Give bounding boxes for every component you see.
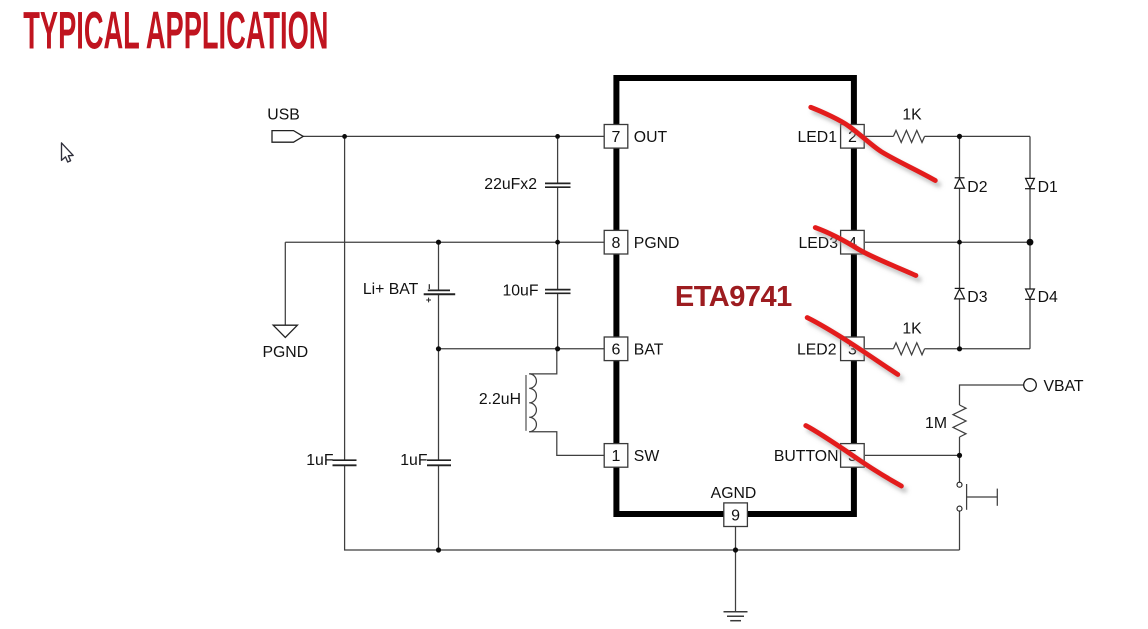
- svg-text:1uF: 1uF: [400, 452, 428, 469]
- svg-text:OUT: OUT: [634, 129, 668, 146]
- svg-text:LED1: LED1: [797, 129, 837, 146]
- svg-text:Li+ BAT: Li+ BAT: [363, 281, 419, 298]
- svg-text:1uF: 1uF: [306, 452, 334, 469]
- svg-text:9: 9: [731, 508, 740, 525]
- svg-text:8: 8: [612, 235, 621, 252]
- svg-text:7: 7: [612, 129, 621, 146]
- svg-text:BAT: BAT: [634, 342, 664, 359]
- svg-text:USB: USB: [267, 106, 299, 123]
- svg-text:1K: 1K: [902, 320, 922, 337]
- svg-text:PGND: PGND: [262, 344, 308, 361]
- svg-text:1: 1: [612, 448, 621, 465]
- svg-text:TYPICAL APPLICATION: TYPICAL APPLICATION: [23, 1, 328, 60]
- svg-text:6: 6: [612, 342, 621, 359]
- svg-text:VBAT: VBAT: [1044, 378, 1084, 395]
- svg-text:D2: D2: [967, 179, 987, 196]
- svg-text:1K: 1K: [902, 106, 922, 123]
- svg-text:2.2uH: 2.2uH: [479, 391, 521, 408]
- svg-text:LED2: LED2: [797, 342, 837, 359]
- svg-text:D3: D3: [967, 289, 987, 306]
- svg-text:AGND: AGND: [711, 485, 757, 502]
- svg-text:22uFx2: 22uFx2: [484, 176, 537, 193]
- svg-text:1M: 1M: [925, 415, 947, 432]
- svg-text:D1: D1: [1038, 179, 1058, 196]
- svg-text:PGND: PGND: [634, 235, 680, 252]
- svg-text:D4: D4: [1038, 289, 1058, 306]
- svg-text:BUTTON: BUTTON: [774, 448, 839, 465]
- svg-text:10uF: 10uF: [502, 282, 538, 299]
- svg-text:ETA9741: ETA9741: [675, 281, 792, 313]
- svg-text:SW: SW: [634, 448, 660, 465]
- svg-text:LED3: LED3: [798, 235, 838, 252]
